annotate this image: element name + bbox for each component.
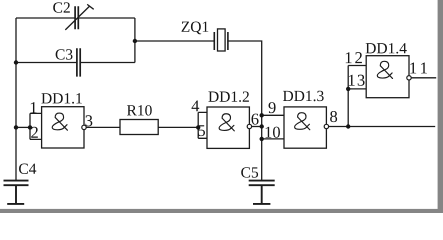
wire pin11 output xyxy=(411,77,436,79)
pin 8 xyxy=(330,111,337,122)
wire pin6 to bus2 xyxy=(252,126,262,128)
label C4 xyxy=(19,164,36,174)
op-amp symbol DD1.1 & xyxy=(52,113,67,130)
node DD1.2 tie xyxy=(196,125,200,129)
gate DD1.2 box xyxy=(207,107,249,148)
wire left bus vertical xyxy=(15,18,17,180)
inversion bubbles xyxy=(82,76,411,130)
capacitor C5 xyxy=(249,181,275,186)
op-amp symbol DD1.3 & xyxy=(295,113,310,130)
label R10 xyxy=(127,105,152,115)
pin 6 xyxy=(252,114,259,125)
wire ZQ1 row left xyxy=(135,40,214,42)
gate DD1.1 box xyxy=(42,107,84,148)
wire C3 row xyxy=(16,62,135,64)
capacitor C3 xyxy=(77,48,80,76)
label DD1.2 xyxy=(208,91,248,101)
node bus2 pin9 xyxy=(260,113,264,117)
pin 10 xyxy=(266,127,280,138)
node DD1.1 tie xyxy=(28,125,32,129)
node bus2 pin6 xyxy=(260,124,264,128)
wire R10 to DD1.2 xyxy=(158,126,198,128)
label DD1.1 xyxy=(41,93,81,103)
node bus / DD1.1 input xyxy=(14,125,18,129)
pin 13 xyxy=(349,75,365,86)
op-amp symbol DD1.4 & xyxy=(377,61,392,78)
wire loop right edge xyxy=(134,18,136,63)
label C2 xyxy=(53,2,70,12)
wire pin10 xyxy=(262,138,284,140)
wire DD1.3 output to right edge xyxy=(329,126,436,128)
pin 5 xyxy=(198,125,205,136)
wire DD1.4 tie vertical xyxy=(348,66,366,127)
bubble DD1.1 out xyxy=(82,125,86,129)
frame shadow bottom xyxy=(0,209,443,213)
bubble DD1.3 out xyxy=(324,124,328,128)
frame shadow right xyxy=(438,0,443,213)
pin 11 xyxy=(410,63,427,74)
pin 2 xyxy=(31,127,38,138)
gate DD1.4 box xyxy=(366,56,409,98)
node C3 / left bus xyxy=(14,60,18,64)
wire top loop row xyxy=(16,17,135,19)
pin 1 xyxy=(31,102,37,113)
gate DD1.3 box xyxy=(284,107,326,148)
label DD1.3 xyxy=(283,91,324,101)
bubble DD1.2 out xyxy=(247,124,251,128)
pin 12 xyxy=(346,52,362,63)
wire input DD1.1 from bus xyxy=(16,126,30,128)
label C3 xyxy=(56,49,73,59)
ground for C4 xyxy=(7,185,24,204)
label DD1.4 xyxy=(366,43,407,53)
label C5 xyxy=(241,167,258,177)
node DD1.3 out / DD1.4 tie xyxy=(346,124,350,128)
bubble DD1.4 out xyxy=(407,76,411,80)
wire DD1.2 input tie xyxy=(198,112,207,138)
crystal ZQ1 xyxy=(214,32,228,50)
wire pin3 to R10 xyxy=(86,126,120,128)
op-amp symbol DD1.2 & xyxy=(219,114,234,131)
pin 9 xyxy=(269,102,276,113)
wire pin9 xyxy=(262,114,284,116)
label ZQ1 xyxy=(182,22,209,35)
text as paths xyxy=(19,2,427,177)
ground for C5 xyxy=(253,185,270,204)
pin 4 xyxy=(192,100,200,111)
wire DD1.1 input tie xyxy=(30,113,42,139)
wire ZQ1 to bus2 xyxy=(228,41,262,180)
node ZQ1 / loop right xyxy=(133,39,137,43)
pin 3 xyxy=(85,115,92,126)
resistor R10 xyxy=(120,120,158,135)
capacitor C2 xyxy=(75,6,78,29)
node DD1.4 pin13 tie xyxy=(346,87,350,91)
node bus2 pin10 xyxy=(260,137,264,141)
capacitor C4 xyxy=(4,181,29,186)
